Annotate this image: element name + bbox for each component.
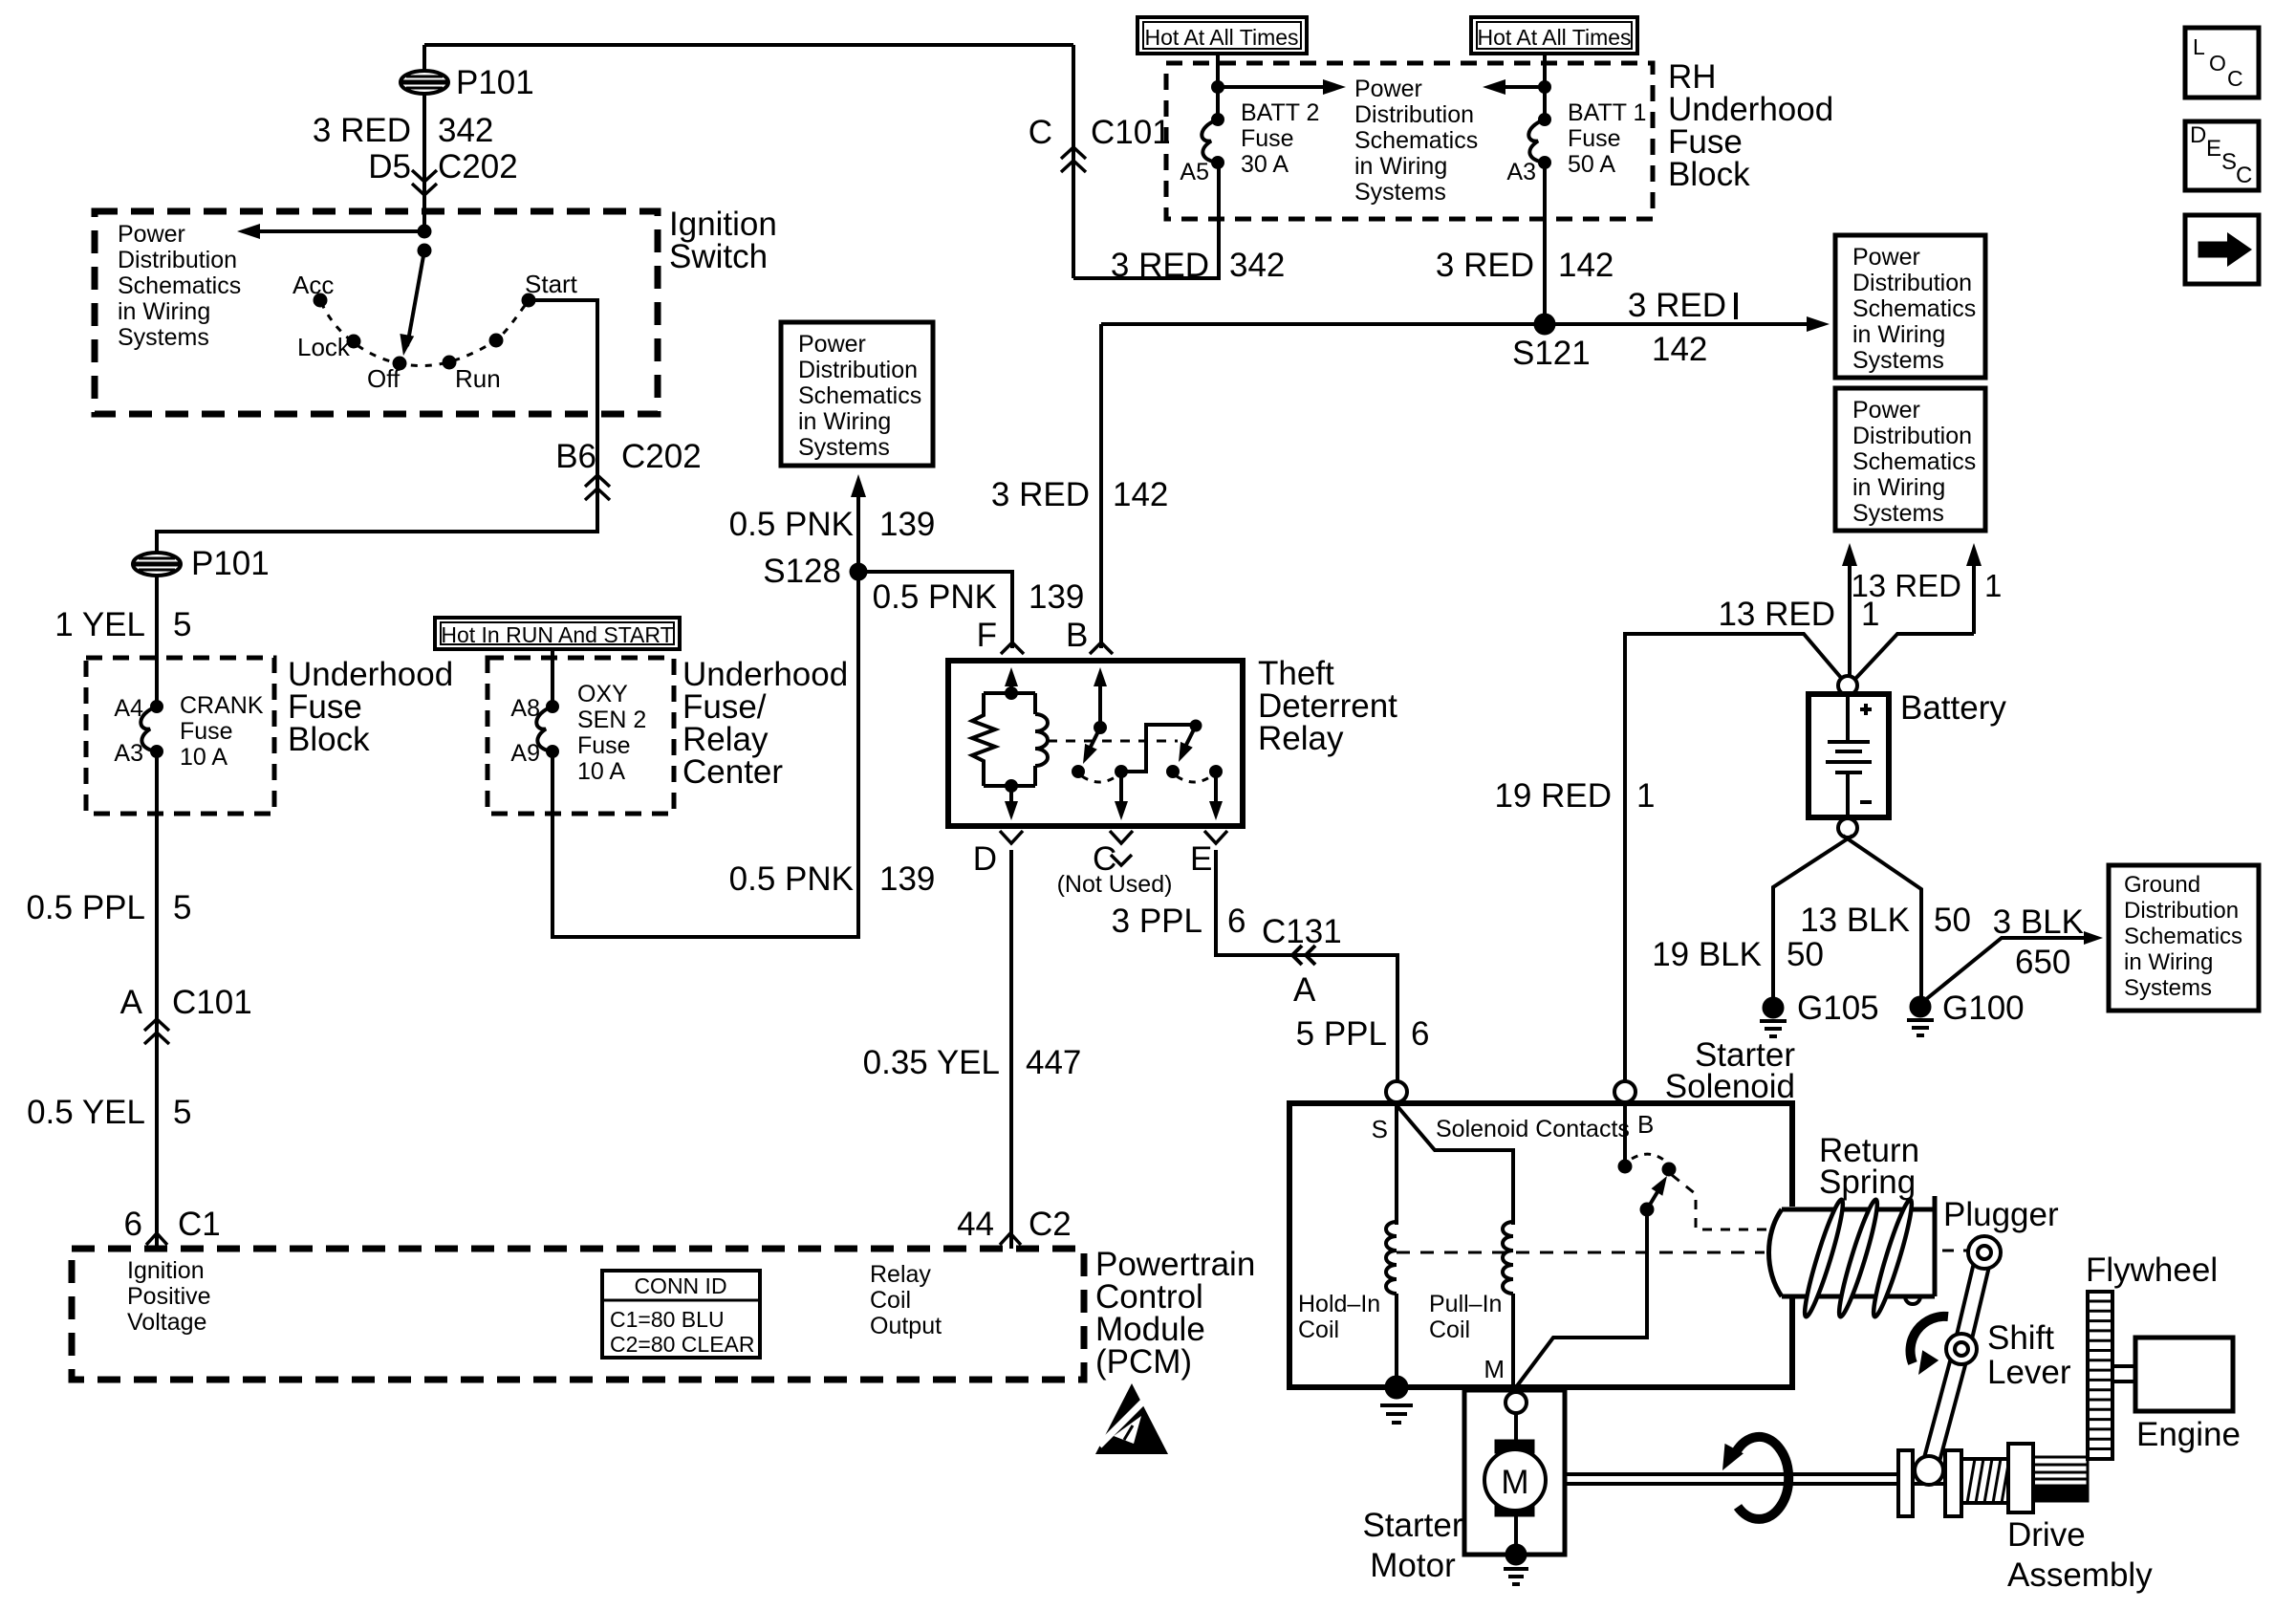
svg-text:BATT 1: BATT 1 — [1568, 99, 1646, 126]
connector chevron below C — [1110, 831, 1133, 865]
drive assembly splined shaft — [2033, 1457, 2088, 1501]
label Hold-In Coil — [1298, 1291, 1380, 1343]
svg-text:5: 5 — [173, 606, 191, 643]
svg-text:Coil: Coil — [870, 1287, 911, 1314]
label pin C — [1093, 840, 1116, 878]
svg-text:Systems: Systems — [1852, 500, 1944, 527]
svg-text:Spring: Spring — [1819, 1164, 1916, 1201]
svg-text:0.5 PPL: 0.5 PPL — [26, 889, 145, 926]
wire S128 up-arrow into power distribution box — [851, 474, 866, 572]
svg-text:A5: A5 — [1180, 159, 1209, 185]
svg-text:Hold–In: Hold–In — [1298, 1291, 1380, 1317]
DESC box — [2185, 121, 2259, 190]
svg-text:650: 650 — [2015, 944, 2070, 981]
label M — [1484, 1355, 1505, 1383]
svg-text:(PCM): (PCM) — [1095, 1343, 1192, 1381]
svg-text:C202: C202 — [438, 148, 518, 185]
wire S121 horizontal to power distribution box — [1101, 316, 1830, 332]
solenoid moving contact — [1640, 1176, 1667, 1216]
svg-text:Center: Center — [682, 753, 783, 791]
svg-text:1: 1 — [1984, 568, 2002, 603]
underhood fuse block dashed box — [86, 658, 274, 814]
battery positive terminal — [1838, 676, 1857, 695]
connector chevron below D — [1000, 831, 1023, 843]
svg-text:F: F — [977, 617, 997, 654]
svg-text:3 RED: 3 RED — [1111, 247, 1209, 284]
svg-text:A3: A3 — [114, 740, 143, 767]
power distribution schematics box (right upper) — [1835, 235, 1985, 378]
svg-text:C1: C1 — [178, 1206, 221, 1243]
svg-text:S: S — [1372, 1115, 1388, 1143]
svg-text:Solenoid Contacts: Solenoid Contacts — [1436, 1116, 1630, 1142]
svg-text:in Wiring: in Wiring — [798, 408, 891, 435]
connector C202 pin B6 (double chevron up) — [585, 475, 610, 500]
pin A4 — [114, 695, 143, 722]
wire S to pull-in coil — [1397, 1105, 1513, 1225]
svg-text:Run: Run — [455, 364, 501, 393]
theft deterrent relay box — [948, 661, 1243, 826]
svg-text:C101: C101 — [172, 984, 252, 1021]
motor drive shaft — [1565, 1474, 1945, 1484]
svg-text:0.5 YEL: 0.5 YEL — [27, 1094, 145, 1131]
shift lever — [1921, 1236, 2001, 1472]
svg-text:6: 6 — [124, 1206, 142, 1243]
label A C101 — [120, 984, 252, 1021]
svg-text:S128: S128 — [763, 553, 841, 590]
svg-text:in Wiring: in Wiring — [1354, 153, 1447, 180]
ignition switch wiper arm — [400, 244, 431, 356]
svg-text:10 A: 10 A — [577, 758, 625, 785]
svg-text:1: 1 — [1636, 777, 1655, 815]
solenoid M terminal — [1505, 1392, 1527, 1413]
svg-text:30 A: 30 A — [1241, 151, 1289, 178]
relay contact to E arrow — [1209, 766, 1223, 821]
label 0.5 YEL 5 — [27, 1094, 191, 1131]
svg-text:S121: S121 — [1512, 335, 1591, 372]
label pin B — [1066, 617, 1088, 654]
label Underhood Fuse/Relay Center — [682, 656, 848, 791]
svg-text:19 RED: 19 RED — [1494, 777, 1612, 815]
label 13 BLK 50 — [1800, 902, 1971, 939]
svg-text:Drive: Drive — [2007, 1516, 2086, 1554]
text BATT 1 Fuse 50 A — [1568, 99, 1646, 178]
battery — [1809, 689, 2006, 817]
svg-text:13 RED: 13 RED — [1718, 596, 1835, 633]
svg-text:Distribution: Distribution — [2124, 898, 2239, 924]
power distribution schematics box (right lower) — [1835, 388, 1985, 531]
wire C101 vertical (3 RED 342) — [1072, 45, 1075, 278]
svg-text:Fuse: Fuse — [180, 718, 233, 745]
svg-text:CRANK: CRANK — [180, 692, 264, 719]
label Shift Lever — [1987, 1319, 2071, 1391]
wire hold-in coil to ground — [1395, 1294, 1398, 1387]
ignition switch contact Acc — [292, 271, 334, 307]
svg-text:Power: Power — [1852, 397, 1920, 424]
svg-text:Motor: Motor — [1370, 1547, 1456, 1584]
connector P101 (top) — [401, 64, 534, 101]
label Solenoid Contacts — [1436, 1116, 1630, 1142]
svg-text:Distribution: Distribution — [1852, 270, 1972, 296]
ignition switch contact mid — [489, 334, 503, 347]
svg-text:50 A: 50 A — [1568, 151, 1615, 178]
svg-text:C2: C2 — [1029, 1206, 1072, 1243]
flywheel gear — [2088, 1292, 2112, 1459]
flywheel to engine shaft — [2112, 1366, 2135, 1382]
text Power Distribution Schematics in Wiring Systems (RH fuse block) — [1354, 76, 1478, 206]
svg-text:Fuse: Fuse — [1241, 125, 1294, 152]
svg-text:BATT 2: BATT 2 — [1241, 99, 1319, 126]
label Ignition Switch — [669, 206, 777, 275]
relay contact dashed arc (switch1) — [1082, 776, 1116, 782]
starter motor M symbol — [1484, 1440, 1546, 1516]
wire from Start contact to C202 B6 — [157, 300, 597, 553]
wire C101 to BATT2 fuse A5 — [1073, 163, 1219, 278]
svg-text:Solenoid: Solenoid — [1665, 1068, 1795, 1105]
relay switch 1 arm — [1083, 728, 1100, 764]
underhood fuse/relay center dashed box — [487, 658, 674, 814]
svg-text:C131: C131 — [1262, 913, 1342, 950]
connector C1 pin 6 (chevron) — [146, 1233, 167, 1245]
label C C101 — [1029, 114, 1171, 151]
fuse BATT 2 30A — [1202, 114, 1224, 169]
svg-text:Acc: Acc — [292, 271, 334, 299]
label 3 RED 142 (right of S121) — [1628, 287, 1736, 368]
svg-text:Lever: Lever — [1987, 1354, 2071, 1391]
dashed line plunger to shift lever — [1942, 1250, 1967, 1252]
svg-text:A: A — [1293, 971, 1316, 1009]
svg-text:M: M — [1484, 1355, 1505, 1383]
wire battery negative to G105 — [1773, 836, 1852, 998]
svg-text:G105: G105 — [1797, 990, 1879, 1027]
svg-text:OXY: OXY — [577, 681, 628, 707]
svg-text:Fuse: Fuse — [577, 732, 631, 759]
wire from P101 to ignition switch — [422, 94, 426, 231]
svg-text:in Wiring: in Wiring — [118, 298, 210, 325]
svg-text:6: 6 — [1227, 903, 1245, 940]
engine box — [2135, 1338, 2233, 1411]
svg-text:Positive: Positive — [127, 1283, 211, 1310]
svg-text:Assembly: Assembly — [2007, 1556, 2153, 1594]
svg-text:142: 142 — [1113, 476, 1168, 513]
wire BATT1 fuse to S121 — [1543, 163, 1547, 324]
svg-text:A8: A8 — [510, 695, 540, 722]
ground distribution schematics box — [2109, 865, 2259, 1011]
svg-text:E: E — [1190, 840, 1212, 878]
relay contact to C arrow — [1115, 766, 1128, 821]
label C131 — [1262, 913, 1342, 950]
solenoid S terminal — [1372, 1081, 1407, 1143]
label pin A (C131) — [1293, 971, 1316, 1009]
connector C101 pin C (double chevron up) — [1061, 147, 1086, 172]
svg-text:Pull–In: Pull–In — [1429, 1291, 1502, 1317]
wire relay D to PCM 44 C2 — [1009, 850, 1013, 1249]
label 44 C2 — [957, 1206, 1072, 1243]
label 3 RED 142 (from BATT1) — [1436, 247, 1614, 284]
wire S128 to relay pin F — [858, 572, 1012, 648]
svg-text:Starter: Starter — [1362, 1507, 1462, 1544]
svg-text:C: C — [2236, 163, 2252, 188]
svg-text:447: 447 — [1026, 1044, 1081, 1081]
drive assembly plate 1 — [1898, 1450, 1913, 1516]
svg-text:Schematics: Schematics — [118, 272, 241, 299]
svg-text:Relay: Relay — [1258, 720, 1344, 757]
svg-text:A4: A4 — [114, 695, 143, 722]
svg-text:A9: A9 — [510, 740, 540, 767]
svg-text:0.35 YEL: 0.35 YEL — [863, 1044, 1000, 1081]
solenoid second contact — [1662, 1163, 1676, 1176]
pin A3 (crank fuse) — [114, 740, 143, 767]
svg-text:Ground: Ground — [2124, 872, 2200, 898]
box Hot At All Times (right) — [1471, 17, 1637, 54]
svg-text:D: D — [973, 840, 997, 878]
LOC box — [2185, 28, 2259, 98]
wire motor to ground — [1514, 1511, 1518, 1555]
ignition switch contact Start — [522, 270, 578, 307]
pull-in coil — [1503, 1222, 1513, 1294]
wire CRANK fuse A3 to PCM C1 pin 6 — [155, 751, 159, 1249]
svg-text:O: O — [2209, 51, 2226, 76]
svg-text:44: 44 — [957, 1206, 994, 1243]
connector C2 pin 44 (chevron) — [1000, 1233, 1021, 1245]
svg-text:Block: Block — [288, 721, 370, 758]
svg-text:in Wiring: in Wiring — [2124, 949, 2213, 975]
relay contact (switch2 left) — [1167, 766, 1180, 778]
svg-text:A: A — [120, 984, 143, 1021]
svg-text:342: 342 — [438, 112, 493, 149]
text Ignition Positive Voltage — [127, 1257, 211, 1336]
power distribution schematics box (middle) — [781, 322, 933, 466]
drive assembly screw shaft — [1961, 1459, 2009, 1503]
shift lever ball — [1915, 1456, 1943, 1485]
wire 3 RED 342 from C101 to ignition switch (top horizontal) — [424, 43, 1073, 47]
label RH Underhood Fuse Block — [1668, 58, 1833, 193]
wire arrow to power distribution (left) — [237, 224, 431, 239]
wire battery positive to box (left arrow up) — [1842, 543, 1857, 676]
ignition switch rotary dashed arc — [321, 302, 527, 366]
label pin E — [1190, 840, 1212, 878]
label Drive Assembly — [2007, 1516, 2153, 1594]
svg-text:G100: G100 — [1942, 990, 2025, 1027]
svg-text:13 BLK: 13 BLK — [1800, 902, 1910, 939]
svg-text:C202: C202 — [621, 438, 702, 475]
svg-text:Schematics: Schematics — [2124, 924, 2242, 949]
label Powertrain Control Module (PCM) — [1095, 1246, 1255, 1381]
text BATT 2 Fuse 30 A — [1241, 99, 1319, 178]
wire OXY fuse A9 to S128 — [552, 580, 858, 937]
arrow BATT1 to power distribution text — [1483, 79, 1545, 95]
arrow BATT2 to power distribution text — [1218, 79, 1346, 95]
pin A3 (BATT1) — [1506, 159, 1536, 185]
svg-text:Systems: Systems — [1354, 179, 1446, 206]
svg-text:Engine: Engine — [2136, 1416, 2241, 1453]
connector chevron below E — [1204, 831, 1227, 843]
wire P101 to CRANK fuse A4 — [155, 576, 159, 707]
box Hot In RUN And START — [435, 618, 680, 649]
wire 19 RED to starter solenoid B — [1625, 634, 1842, 1082]
wire P101 top stub — [422, 45, 426, 71]
connector C202 pin D5 (double chevron down) — [412, 170, 437, 195]
wire G100 to ground distribution box — [1925, 931, 2103, 1000]
arrow box — [2185, 215, 2259, 284]
label Engine — [2136, 1416, 2241, 1453]
box Hot At All Times (left) — [1137, 17, 1307, 54]
label 6 C1 — [124, 1206, 221, 1243]
svg-text:Plugger: Plugger — [1943, 1196, 2059, 1233]
label 5 PPL 6 — [1296, 1015, 1430, 1053]
wire pull-in coil to M — [1511, 1294, 1515, 1387]
connector chevron at B — [1090, 642, 1113, 654]
svg-text:Power: Power — [1354, 76, 1422, 102]
text CRANK Fuse 10 A — [180, 692, 264, 771]
svg-text:3 BLK: 3 BLK — [1993, 903, 2084, 941]
svg-text:Distribution: Distribution — [1852, 423, 1972, 449]
solenoid dashed link to plunger — [1672, 1175, 1767, 1229]
solenoid B terminal — [1614, 1081, 1654, 1139]
svg-text:S: S — [2221, 149, 2237, 175]
svg-text:Coil: Coil — [1298, 1316, 1339, 1343]
svg-text:342: 342 — [1229, 247, 1285, 284]
starter solenoid box — [1289, 1103, 1792, 1387]
relay resistor — [972, 693, 995, 786]
splice S121 — [1512, 314, 1591, 372]
svg-text:139: 139 — [879, 506, 935, 543]
wire BATT1 fuse top — [1539, 54, 1551, 120]
svg-text:5 PPL: 5 PPL — [1296, 1015, 1387, 1053]
svg-text:Off: Off — [367, 364, 401, 393]
relay contact (switch1 left) — [1072, 766, 1085, 778]
relay coil top bar — [984, 687, 1035, 700]
svg-text:Schematics: Schematics — [798, 382, 921, 409]
svg-text:1 YEL: 1 YEL — [54, 606, 145, 643]
fuse CRANK 10A — [141, 701, 162, 758]
svg-text:Distribution: Distribution — [118, 247, 237, 273]
label 0.5 PPL 5 — [26, 889, 191, 926]
CONN ID table — [602, 1271, 760, 1358]
svg-text:C: C — [2227, 66, 2243, 91]
svg-text:Battery: Battery — [1900, 689, 2006, 727]
solenoid contact dashed arc — [1632, 1154, 1666, 1162]
svg-text:Start: Start — [525, 270, 578, 298]
return spring coils — [1800, 1198, 1917, 1319]
ignition switch contact Run — [443, 356, 501, 393]
svg-text:Distribution: Distribution — [798, 357, 918, 383]
svg-text:P101: P101 — [456, 64, 534, 101]
svg-text:Systems: Systems — [2124, 975, 2212, 1001]
drive assembly plate 2 — [1945, 1450, 1961, 1516]
svg-text:3 RED: 3 RED — [313, 112, 411, 149]
label Flywheel — [2086, 1251, 2218, 1289]
starter motor box — [1464, 1390, 1565, 1555]
svg-text:3 RED: 3 RED — [991, 476, 1090, 513]
label Theft Deterrent Relay — [1258, 655, 1397, 757]
label 0.5 PNK 139 (lower) — [729, 860, 936, 898]
relay coil feed arrow (F) — [1005, 667, 1018, 693]
text Relay Coil Output — [870, 1261, 942, 1339]
svg-text:10 A: 10 A — [180, 744, 227, 771]
relay coil — [1035, 693, 1048, 786]
label 13 RED 1 (upper) — [1851, 568, 2002, 603]
svg-text:Systems: Systems — [1852, 347, 1944, 374]
wire hot box to OXY fuse A8 — [551, 649, 554, 707]
svg-text:19 BLK: 19 BLK — [1652, 936, 1762, 973]
svg-text:E: E — [2206, 136, 2221, 162]
shift lever pivot arrow — [1911, 1316, 1948, 1375]
ground G100 — [1907, 990, 2025, 1035]
pin A9 — [510, 740, 540, 767]
svg-text:142: 142 — [1652, 331, 1707, 368]
solenoid mechanical dashed line — [1397, 1251, 1765, 1254]
solenoid B contact — [1618, 1102, 1632, 1173]
wire S121 to relay pin B — [1099, 324, 1103, 648]
pin A8 — [510, 695, 540, 722]
svg-text:Lock: Lock — [297, 333, 351, 361]
svg-text:Hot At All Times: Hot At All Times — [1477, 25, 1631, 50]
relay switch 2 arm — [1179, 726, 1196, 762]
label 3 BLK 650 — [1993, 903, 2084, 981]
svg-text:Systems: Systems — [798, 434, 890, 461]
label (Not Used) — [1057, 871, 1173, 898]
splice S128 — [763, 553, 867, 590]
label 3 PPL 6 — [1112, 903, 1246, 940]
svg-text:SEN 2: SEN 2 — [577, 707, 646, 733]
svg-text:Flywheel: Flywheel — [2086, 1251, 2218, 1289]
svg-text:50: 50 — [1934, 902, 1971, 939]
connector C131 chevrons — [1292, 946, 1315, 965]
svg-text:Schematics: Schematics — [1852, 448, 1976, 475]
svg-text:0.5 PNK: 0.5 PNK — [729, 860, 854, 898]
svg-text:Power: Power — [798, 331, 866, 358]
svg-text:B: B — [1066, 617, 1088, 654]
label 0.5 PNK 139 (upper) — [729, 506, 936, 543]
fuse BATT 1 50A — [1528, 114, 1550, 169]
svg-text:Schematics: Schematics — [1354, 127, 1478, 154]
label Underhood Fuse Block — [288, 656, 453, 758]
ESD sensitive symbol — [1095, 1383, 1168, 1454]
svg-text:CONN ID: CONN ID — [634, 1273, 726, 1298]
label pin F — [977, 617, 997, 654]
label 13 RED 1 (lower) — [1718, 596, 1879, 633]
powertrain control module dashed box — [72, 1249, 1084, 1380]
svg-text:1: 1 — [1861, 596, 1879, 633]
svg-text:Distribution: Distribution — [1354, 101, 1474, 128]
label 3 RED 342 (D5 C202) — [313, 112, 518, 185]
ignition switch dashed box — [95, 211, 658, 414]
label 0.5 PNK 139 (to relay) — [873, 578, 1085, 616]
svg-text:Power: Power — [118, 221, 185, 248]
shaft rotation arrow — [1722, 1437, 1788, 1519]
svg-text:0.5 PNK: 0.5 PNK — [729, 506, 854, 543]
label Plugger — [1943, 1196, 2059, 1233]
relay dashed actuation line — [1048, 740, 1178, 743]
label 0.35 YEL 447 — [863, 1044, 1082, 1081]
svg-text:139: 139 — [879, 860, 935, 898]
svg-text:Fuse: Fuse — [1568, 125, 1621, 152]
svg-text:139: 139 — [1029, 578, 1084, 616]
text Power Distribution Schematics in Wiring Systems (ignition switch) — [118, 221, 241, 351]
label 19 RED 1 — [1494, 777, 1655, 815]
pin A5 — [1180, 159, 1209, 185]
svg-text:5: 5 — [173, 1094, 191, 1131]
label Starter Motor — [1362, 1507, 1462, 1584]
text OXY SEN 2 Fuse 10 A — [577, 681, 646, 785]
svg-text:Block: Block — [1668, 156, 1750, 193]
battery negative terminal — [1838, 818, 1857, 838]
svg-text:Ignition: Ignition — [127, 1257, 205, 1284]
relay switch 1 pole (from B) — [1094, 667, 1107, 734]
solenoid ground — [1380, 1376, 1413, 1423]
svg-text:Systems: Systems — [118, 324, 209, 351]
wire relay E to solenoid S (5 PPL) — [1216, 850, 1397, 1081]
